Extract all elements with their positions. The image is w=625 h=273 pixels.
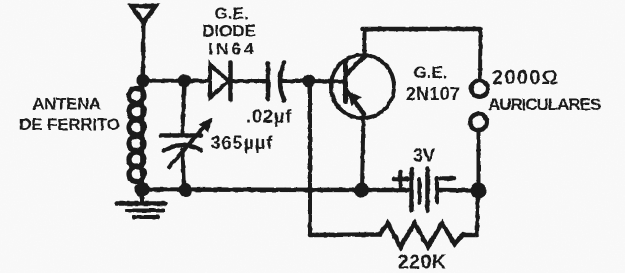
antenna — [132, 6, 156, 23]
node junction top-left — [137, 74, 150, 87]
wire collector up — [363, 29, 367, 56]
wire emitter down — [362, 113, 364, 190]
wire top rail left — [143, 79, 209, 84]
wire capacitor to base node — [282, 79, 310, 83]
variable capacitor C1 365uuf — [161, 87, 213, 190]
wire diode to capacitor — [231, 79, 269, 83]
label G.E. 2N107 — [406, 63, 461, 104]
wire bottom rail left — [142, 187, 410, 192]
wire antenna lead — [141, 23, 146, 81]
label G.E. DIODE IN64 — [202, 4, 257, 59]
label ANTENA DE FERRITO — [19, 95, 120, 135]
wire base node down to resistor loop — [308, 88, 312, 236]
wire resistor right lead — [463, 233, 477, 238]
headphone terminal lower — [470, 114, 486, 130]
diode D1 1N64 — [210, 63, 231, 100]
label 2000 ohm AURICULARES — [488, 67, 601, 114]
wire base node to transistor — [309, 79, 346, 84]
node junction bottom-left — [135, 182, 150, 197]
headphone terminal upper — [471, 80, 487, 96]
wire right drop to phones — [478, 29, 483, 80]
ground — [117, 193, 166, 217]
node junction base — [303, 75, 316, 88]
node junction emitter — [354, 183, 369, 198]
node junction tuning-cap bottom — [179, 183, 193, 197]
wire up to battery minus node — [477, 191, 478, 235]
coil L1 ferrite antenna — [129, 86, 144, 184]
wire phones to battery plus node — [477, 131, 481, 191]
transistor Q1 2N107 — [331, 55, 394, 118]
wire bottom rail right — [439, 188, 479, 193]
wire resistor left lead — [310, 232, 380, 237]
battery B1 3V — [394, 169, 455, 211]
resistor R1 220K — [380, 223, 463, 247]
wire top rail — [363, 27, 481, 32]
capacitor C2 .02uf — [268, 63, 284, 101]
node junction battery minus — [471, 183, 487, 199]
node junction tuning-cap top — [178, 75, 191, 88]
